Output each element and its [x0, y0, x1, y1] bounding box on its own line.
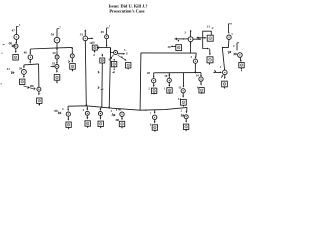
- chevron on 55 vertical upper: [98, 71, 99, 73]
- square 23a: [183, 124, 188, 129]
- arrow row3 to circle 18: [168, 75, 170, 77]
- arrow 45 down: [71, 58, 73, 62]
- arrow below square 43a: [87, 126, 89, 128]
- square 35a: [54, 75, 60, 81]
- node circle 34: [55, 55, 59, 59]
- node circle 17: [223, 70, 228, 75]
- junction dash on 55 vertical: [101, 88, 104, 90]
- arrow below square 48a: [121, 127, 123, 129]
- diagonal arrow from 39a to 38: [24, 86, 35, 89]
- arrow 38 down: [38, 91, 40, 94]
- svg-text:50: 50: [51, 33, 55, 37]
- diagonal arrow into 58 from lower left: [111, 55, 113, 58]
- square 17a: [222, 81, 228, 87]
- svg-text:10: 10: [196, 73, 200, 77]
- svg-text:35: 35: [52, 61, 56, 65]
- wire into cross 33 from left: [175, 38, 189, 40]
- square 39a: [20, 79, 25, 84]
- wire 35b down to row3: [194, 63, 196, 72]
- wire hub corner into circle 58: [111, 48, 114, 53]
- wire 50 top cap: [57, 28, 59, 30]
- arrow into square 31 from left: [197, 37, 207, 39]
- arrow hub vertical onto bottom line: [108, 107, 110, 109]
- wire 47 top cap: [16, 25, 18, 27]
- square 38a: [37, 98, 42, 103]
- wire right side of rectangle: [38, 64, 40, 87]
- node circle 18: [167, 78, 171, 82]
- square 19: [167, 88, 172, 93]
- arrow L-top to 45: [71, 47, 73, 49]
- arrow 34 to 35: [56, 59, 58, 63]
- arrow below square 14: [183, 105, 185, 107]
- node circle 43: [85, 111, 89, 115]
- wire 50 to L-top: [56, 43, 58, 48]
- square 53: [126, 63, 131, 68]
- arrow below square 44a: [68, 128, 70, 130]
- node circle 44: [66, 112, 70, 116]
- arrow 28 down: [153, 83, 155, 86]
- arrow 10 down: [200, 81, 202, 85]
- svg-text:28: 28: [147, 71, 151, 75]
- square 31: [207, 35, 213, 41]
- dash far left: [3, 44, 5, 46]
- arrow below square 52: [113, 66, 115, 68]
- arrow below square 27: [153, 93, 155, 95]
- chevrons into circle 2: [234, 53, 237, 55]
- chevrons toward circle 2: [228, 51, 231, 54]
- arrow row3 to circle 28: [153, 73, 155, 78]
- arrow below square 73a: [154, 130, 156, 132]
- wire 49 top cap: [107, 27, 109, 29]
- wire L-top horizontal: [30, 47, 72, 49]
- arrow below square 35a: [56, 80, 58, 83]
- arrow drop to circle 42: [99, 108, 101, 110]
- chevrons into 40: [12, 45, 15, 47]
- svg-text:46: 46: [24, 50, 28, 54]
- chevrons into 44: [58, 112, 61, 115]
- node circle 47: [14, 34, 19, 39]
- svg-text:49: 49: [101, 30, 105, 34]
- arrow 33 up: [190, 30, 192, 36]
- arrow below square 4: [94, 50, 96, 52]
- wire 1 down with jog: [222, 40, 229, 71]
- arrow below square 24: [241, 68, 243, 70]
- arrow 33 down to L3: [190, 42, 192, 53]
- svg-text:15: 15: [178, 85, 182, 89]
- wire 47 vertical: [15, 26, 17, 34]
- arrow 18 down: [168, 82, 170, 86]
- svg-text:Prosecution’s Case: Prosecution’s Case: [109, 9, 144, 14]
- node circle 35b: [193, 59, 197, 63]
- arrow 43 down: [86, 115, 88, 118]
- arrow below square 9: [201, 92, 203, 94]
- arrow 46 down to L2: [29, 60, 31, 63]
- arrow 15 down: [182, 93, 184, 97]
- arrow below square 45a: [71, 69, 73, 71]
- square 45a: [70, 64, 76, 70]
- arrow L-top to 46: [29, 49, 31, 54]
- wire 2 vertical: [236, 43, 238, 51]
- diagonal arrow to square 53: [118, 55, 126, 60]
- arrow 39 down: [23, 74, 25, 77]
- wire 49 vertical: [106, 28, 108, 35]
- arrow 51 right: [88, 37, 93, 39]
- diag mark above 31: [212, 27, 214, 29]
- node circle 33 cross: [188, 37, 193, 42]
- arrow onto bottom line: [86, 105, 88, 107]
- wire row3 drop to circle 15: [183, 73, 185, 87]
- wire 55 long vertical to bottom line: [101, 63, 104, 108]
- square 42a: [98, 121, 103, 126]
- svg-text:31: 31: [207, 24, 211, 28]
- arrow 47 to 40: [15, 39, 17, 43]
- square 4: [92, 45, 97, 50]
- arrow 44 down: [67, 116, 69, 120]
- chevron on L4: [98, 47, 99, 49]
- svg-text:34: 34: [52, 51, 56, 55]
- arrow 49 down to L4: [106, 39, 108, 46]
- wire L3 horizontal: [141, 52, 196, 54]
- wire down to square 30: [209, 49, 211, 55]
- wire hub corner vertical down to bottom line: [109, 48, 110, 108]
- square 43a: [85, 121, 90, 126]
- wire loop around 31: [203, 31, 212, 48]
- node circle 51: [83, 36, 88, 41]
- arrow drop to circle 73: [154, 110, 156, 113]
- svg-text:36: 36: [168, 45, 172, 49]
- arrow 35 down: [56, 69, 58, 73]
- node circle 23: [184, 115, 188, 119]
- arrow 51 up: [84, 29, 86, 31]
- square 40a: [13, 55, 19, 61]
- arrow 48 down: [121, 117, 123, 120]
- node circle 49: [105, 35, 109, 39]
- node circle 50: [54, 37, 60, 43]
- node circle 35: [55, 64, 59, 68]
- node circle 46: [28, 55, 33, 60]
- arrow drop to circle 43: [86, 107, 88, 111]
- square 14: [181, 99, 187, 105]
- arrow into 35 from left: [51, 65, 55, 67]
- arrow below L-top at 34: [56, 48, 58, 50]
- chevron on 55 vertical lower: [98, 87, 99, 89]
- hook tick at arrow end: [126, 52, 128, 54]
- arrow 2 down: [239, 57, 242, 61]
- chevron into 38: [34, 88, 35, 90]
- arrowhead of 55 vertical onto bottom line: [101, 107, 103, 109]
- arrow below square 53: [127, 68, 129, 70]
- svg-text:51: 51: [80, 32, 84, 36]
- svg-text:18: 18: [164, 74, 168, 78]
- infinity mark left of 40: [9, 43, 12, 45]
- arrow 40 down: [15, 48, 17, 52]
- square 30: [207, 57, 213, 63]
- square 48a: [119, 121, 124, 126]
- node circle 2: [238, 53, 243, 58]
- arrow 17 down: [224, 75, 226, 78]
- wire 2 top cap: [237, 42, 239, 44]
- arrow below square 30: [209, 63, 211, 65]
- square 24: [239, 62, 244, 67]
- arrow 33 right: [193, 38, 201, 40]
- wire bottom horizontal: [68, 106, 187, 110]
- arrow into square 55: [101, 54, 103, 56]
- chevron left of 45 arrow: [68, 61, 69, 63]
- arrow below square 42a: [100, 127, 102, 129]
- square 52: [111, 61, 116, 66]
- wire long vertical to bottom line: [139, 53, 142, 110]
- square 73a: [152, 125, 157, 130]
- wire end corner down to circle 23: [186, 107, 189, 112]
- node circle 45: [70, 54, 74, 58]
- svg-text:48: 48: [118, 107, 122, 111]
- square 9: [199, 88, 204, 93]
- infinity mark left of 38: [30, 85, 33, 87]
- wire L4 horizontal: [97, 47, 110, 49]
- arrow 73 down: [154, 120, 156, 123]
- arrow below square 38a: [38, 104, 40, 106]
- wire row3 horizontal: [154, 72, 201, 74]
- infinity left of square 48a: [116, 119, 119, 121]
- wire corner down to circle 44: [67, 106, 69, 110]
- square 55: [100, 58, 105, 63]
- arrow below square 17a: [224, 87, 226, 89]
- svg-text:41: 41: [7, 67, 11, 71]
- chevron below square 52: [112, 71, 114, 73]
- chevrons toward circle 39: [11, 72, 14, 74]
- arrow L2 to 39: [23, 65, 25, 68]
- square 44a: [66, 122, 71, 127]
- arrow down to square 36: [178, 40, 180, 42]
- arrow below square 23a: [185, 130, 187, 132]
- wire L2 horizontal: [24, 64, 39, 65]
- arrow out of square 36 left: [171, 45, 176, 47]
- arrow out of circle 58 right: [118, 53, 125, 55]
- square 27: [151, 88, 156, 93]
- arrow 42 down: [99, 116, 101, 119]
- node circle 58: [114, 51, 118, 55]
- arrow below square 19: [169, 92, 171, 94]
- node circle 40: [14, 44, 18, 48]
- arrow up toward 1: [228, 31, 230, 33]
- faint dash left margin: [1, 52, 3, 54]
- node circle 73: [153, 115, 157, 119]
- node circle 28: [152, 79, 156, 83]
- arrow 23 down: [185, 119, 187, 122]
- svg-text:47: 47: [12, 29, 16, 33]
- node circle 39: [22, 70, 27, 75]
- arrowhead at corner 140: [144, 109, 146, 111]
- arrow into square 52: [113, 59, 115, 61]
- chevrons toward circle 48: [112, 113, 116, 116]
- square 36: [176, 45, 182, 51]
- wire L3 corner down to circle 35b: [195, 53, 198, 58]
- arrow row3 to circle 10: [200, 73, 202, 77]
- node circle 48: [120, 112, 124, 116]
- wire 1 vertical: [227, 24, 229, 32]
- node circle 1: [227, 35, 231, 39]
- arrow into 17 cross from left: [213, 71, 221, 73]
- node circle 42: [98, 112, 102, 116]
- wire 51 long vertical down: [85, 41, 86, 106]
- wire 1 top cap: [228, 23, 230, 25]
- node circle 38: [37, 87, 41, 91]
- diag arrow below left of 17: [221, 75, 223, 78]
- wire 50 vertical: [56, 29, 58, 38]
- node circle 10: [199, 77, 203, 81]
- chevrons into 23: [181, 114, 184, 117]
- node circle 15: [181, 89, 185, 93]
